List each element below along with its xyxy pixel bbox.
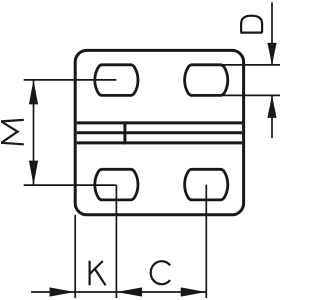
- slot hole top-left: [95, 65, 138, 96]
- label C: [151, 261, 170, 284]
- groove joint tick: [123, 121, 126, 144]
- arrowhead D up: [267, 95, 276, 118]
- label K: [90, 261, 106, 286]
- plate outline: [75, 50, 243, 214]
- label M (rotated): [1, 120, 24, 144]
- extension line K (hole center): [115, 185, 117, 298]
- groove line bottom: [77, 141, 242, 144]
- extension line D bottom: [219, 94, 280, 96]
- slot hole bottom-left: [95, 169, 138, 200]
- extension line D top: [219, 64, 280, 66]
- dimension line K C: [31, 291, 206, 293]
- label D (rotated): [241, 16, 263, 33]
- groove line middle: [77, 131, 242, 134]
- dimension line D upper: [271, 2, 273, 65]
- extension line M top (hole centerline): [24, 79, 117, 81]
- slot hole bottom-right: [185, 169, 228, 200]
- arrowhead K/C middle: [117, 287, 142, 296]
- slot hole top-right: [185, 65, 228, 96]
- arrowhead M up: [29, 80, 38, 105]
- extension line C (hole center): [205, 185, 207, 298]
- extension line M bottom (hole centerline): [24, 184, 117, 186]
- arrowhead K left outside: [50, 287, 75, 296]
- arrowhead M down: [29, 161, 38, 186]
- dimension line M: [33, 80, 35, 185]
- arrowhead D down: [267, 43, 276, 65]
- groove line top: [77, 121, 242, 124]
- extension line plate left edge: [74, 215, 76, 298]
- dimension line D lower: [271, 95, 273, 138]
- arrowhead C right: [181, 287, 206, 296]
